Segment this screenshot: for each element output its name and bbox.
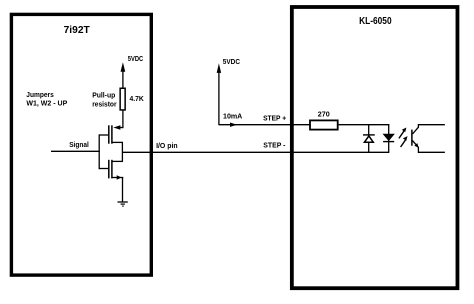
svg-text:KL-6050: KL-6050 (359, 16, 392, 27)
label Pull-up resistor (92, 93, 117, 109)
ground (118, 202, 128, 206)
svg-text:STEP -: STEP - (263, 143, 286, 150)
wire LED D2 branch (388, 125, 390, 153)
wire diode D1 branch (368, 125, 370, 153)
box 7i92T enclosure (11, 14, 151, 275)
diode D1 (reverse protection, pointing up) (363, 135, 375, 142)
svg-text:270: 270 (318, 112, 330, 119)
svg-text:5VDC: 5VDC (223, 59, 240, 66)
wire I/O pin to STEP - (drain to LED cathode) (122, 151, 389, 153)
transistor Q1 PMOS (pull-up side) (99, 125, 123, 143)
svg-text:4.7K: 4.7K (130, 96, 144, 103)
wire drain bus (121, 142, 123, 161)
resistor 270 (310, 120, 338, 129)
svg-text:7i92T: 7i92T (64, 25, 90, 36)
photon arrow lower (401, 136, 408, 147)
svg-text:5VDC: 5VDC (128, 56, 143, 63)
svg-text:Jumpers: Jumpers (26, 92, 54, 99)
svg-text:resistor: resistor (92, 102, 117, 109)
wire gate bus (98, 134, 100, 169)
wire resistor bottom to PMOS source (122, 110, 124, 128)
svg-text:Pull-up: Pull-up (92, 93, 115, 100)
svg-text:STEP +: STEP + (263, 115, 286, 122)
label 10mA current arrow (223, 113, 242, 127)
wire Signal input (51, 150, 100, 152)
box KL-6050 enclosure (292, 7, 458, 288)
svg-text:Signal: Signal (69, 142, 89, 149)
svg-text:I/O pin: I/O pin (156, 143, 178, 150)
photon arrow upper (399, 128, 407, 139)
svg-text:10mA: 10mA (223, 113, 242, 120)
transistor Q2 NMOS (pull-down side) (99, 160, 123, 180)
wire resistor 270 to LED anode (339, 124, 390, 126)
power 5VDC (middle, drive supply) (217, 59, 240, 125)
wire NMOS source to ground (122, 178, 124, 202)
transistor Q3 phototransistor (412, 125, 445, 153)
label Jumpers W1, W2 - UP (26, 92, 67, 108)
LED D2 (optocoupler emitter, pointing down) (383, 134, 394, 141)
svg-text:W1, W2 - UP: W1, W2 - UP (26, 101, 67, 108)
resistor 4.7K (120, 88, 125, 110)
wire STEP + (5VDC to resistor 270) (219, 124, 310, 126)
power 5VDC (left, above pull-up resistor) (121, 56, 144, 89)
